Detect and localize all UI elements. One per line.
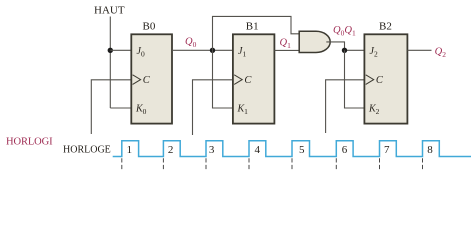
- wire Q2: [407, 49, 431, 51]
- svg-text:HAUT: HAUT: [94, 5, 125, 17]
- wire AND output to K2: [345, 50, 365, 108]
- junction dot HAUT/J0: [108, 48, 113, 53]
- tick mark 8 (dashed): [422, 158, 424, 169]
- svg-text:B1: B1: [246, 21, 259, 33]
- wire CLK to C0: [91, 80, 132, 134]
- svg-text:8: 8: [427, 144, 433, 156]
- clock waveform CLK: [113, 141, 471, 157]
- svg-text:4: 4: [255, 144, 261, 156]
- svg-text:Q1: Q1: [280, 38, 292, 51]
- junction dot AND/J2/K2: [342, 48, 347, 53]
- flip-flop B1: [233, 34, 275, 123]
- tick mark 4 (dashed): [248, 158, 250, 169]
- wire J0: [110, 49, 132, 51]
- svg-text:B0: B0: [143, 21, 156, 33]
- wire K0: [110, 107, 132, 109]
- svg-text:C: C: [244, 75, 252, 86]
- junction dot Q0: [210, 48, 215, 53]
- wire Q0 to AND gate top input: [213, 16, 300, 50]
- wire Q0: [172, 49, 233, 51]
- svg-text:6: 6: [342, 144, 348, 156]
- svg-text:5: 5: [299, 144, 305, 156]
- tick mark 7 (dashed): [379, 158, 381, 169]
- svg-text:3: 3: [209, 144, 215, 156]
- svg-text:7: 7: [384, 144, 390, 156]
- tick mark 5 (dashed): [291, 158, 293, 169]
- wire CLK to C2: [326, 80, 365, 133]
- flip-flop B0: [131, 34, 172, 123]
- wire CLK to C1: [193, 80, 234, 135]
- flip-flop B2: [364, 34, 407, 123]
- tick mark 3 (dashed): [205, 158, 207, 169]
- svg-text:HORLOGI: HORLOGI: [6, 137, 53, 148]
- svg-text:B2: B2: [379, 21, 392, 33]
- svg-text:C: C: [376, 75, 384, 86]
- wire AND output to J2: [326, 42, 365, 50]
- wire Q0 to K1: [213, 50, 234, 108]
- tick mark 2 (dashed): [162, 158, 164, 169]
- wire HAUT vertical: [109, 17, 111, 109]
- tick mark 1 (dashed): [121, 158, 123, 169]
- wire Q1: [274, 49, 299, 51]
- AND gate U1: [299, 31, 330, 52]
- svg-text:1: 1: [127, 144, 133, 156]
- svg-text:2: 2: [168, 144, 174, 156]
- svg-text:Q0Q1: Q0Q1: [333, 25, 356, 38]
- svg-text:Q2: Q2: [435, 46, 447, 59]
- svg-text:Q0: Q0: [185, 37, 197, 50]
- svg-text:HORLOGE: HORLOGE: [63, 145, 111, 156]
- svg-text:C: C: [143, 75, 151, 86]
- tick mark 6 (dashed): [335, 158, 337, 169]
